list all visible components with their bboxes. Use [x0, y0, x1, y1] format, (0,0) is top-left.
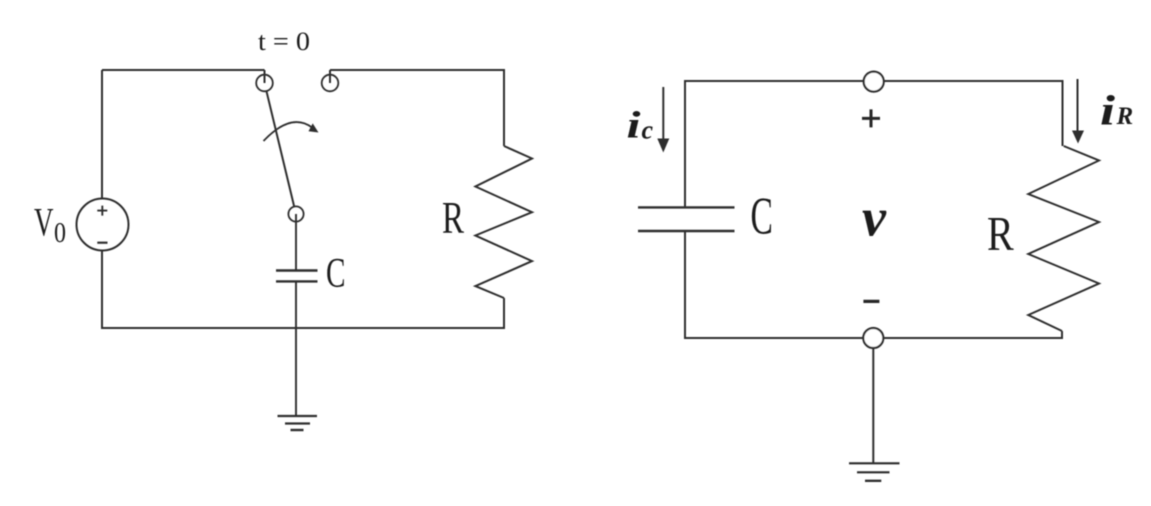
wire top-right segment — [330, 69, 504, 71]
wire capacitor to ground — [295, 281, 297, 416]
node bottom (right circuit) — [863, 328, 883, 348]
switch S1 left contact — [256, 75, 273, 92]
capacitor C (right circuit) — [638, 207, 735, 231]
wire left upper (right circuit) — [684, 80, 686, 207]
capacitor C (left circuit) — [276, 271, 318, 282]
svg-text:V: V — [34, 200, 54, 245]
resistor R (left circuit) — [475, 146, 532, 298]
resistor R (right circuit) — [1028, 146, 1099, 331]
svg-text:0: 0 — [54, 217, 66, 249]
svg-text:t = 0: t = 0 — [258, 27, 310, 56]
wire right upper — [503, 69, 505, 146]
label i_c — [627, 105, 654, 147]
svg-text:c: c — [642, 116, 654, 145]
wire right lower (right circuit) — [1061, 331, 1063, 339]
label V0 — [34, 200, 66, 250]
svg-text:R: R — [442, 193, 464, 243]
label - (voltage polarity) — [863, 300, 879, 303]
wire right upper (right circuit) — [1062, 80, 1064, 146]
svg-text:i: i — [627, 105, 642, 147]
current arrow i_R — [1072, 79, 1084, 144]
current arrow i_c — [657, 87, 669, 153]
wire stub from switch right contact — [329, 70, 331, 83]
svg-text:R: R — [1116, 103, 1134, 130]
wire top-left segment — [102, 69, 265, 71]
voltage source V0 — [77, 199, 129, 251]
ground (left circuit) — [278, 416, 318, 430]
wire switch node to capacitor — [295, 214, 297, 271]
switch output node contact — [288, 206, 303, 221]
switch S1 blade — [267, 91, 295, 206]
wire left lower — [101, 251, 103, 330]
wire right lower — [503, 298, 505, 329]
ground (right circuit) — [849, 463, 900, 481]
wire node to ground (right circuit) — [872, 348, 874, 463]
wire left upper — [101, 70, 103, 199]
svg-text:C: C — [326, 251, 346, 297]
svg-text:R: R — [987, 206, 1014, 261]
switch S1 right contact — [322, 75, 339, 92]
label i_R — [1100, 89, 1133, 135]
node top (right circuit) — [864, 72, 884, 92]
label + (voltage polarity) — [862, 109, 880, 127]
wire left lower (right circuit) — [684, 231, 686, 339]
wire bottom segment — [101, 327, 505, 329]
wire top segment (right circuit) — [685, 80, 1063, 82]
svg-text:i: i — [1100, 89, 1115, 135]
wire bottom segment (right circuit) — [685, 337, 1063, 339]
svg-text:v: v — [862, 188, 887, 248]
svg-text:C: C — [751, 188, 773, 246]
switch actuation arrow — [264, 122, 319, 141]
wire stub into switch left contact — [264, 70, 266, 83]
